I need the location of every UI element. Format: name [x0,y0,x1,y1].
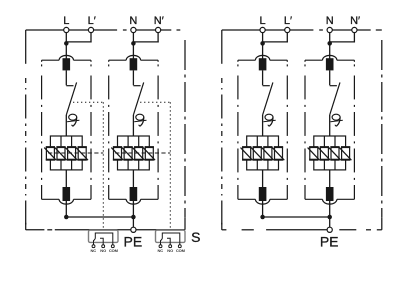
svg-text:N′: N′ [154,15,164,27]
svg-text:NO: NO [167,248,173,253]
svg-text:NC: NC [91,248,97,253]
svg-text:N: N [326,15,334,27]
svg-text:L: L [260,15,266,27]
svg-text:NO: NO [100,248,106,253]
svg-text:PE: PE [320,233,339,249]
svg-text:N′: N′ [350,15,360,27]
svg-text:L: L [63,15,69,27]
svg-text:S: S [191,229,200,245]
svg-text:COM: COM [109,248,119,253]
svg-text:COM: COM [176,248,186,253]
svg-text:N: N [129,15,137,27]
svg-text:NC: NC [158,248,164,253]
svg-text:PE: PE [124,233,143,249]
svg-text:L′: L′ [284,15,292,27]
svg-text:L′: L′ [88,15,96,27]
